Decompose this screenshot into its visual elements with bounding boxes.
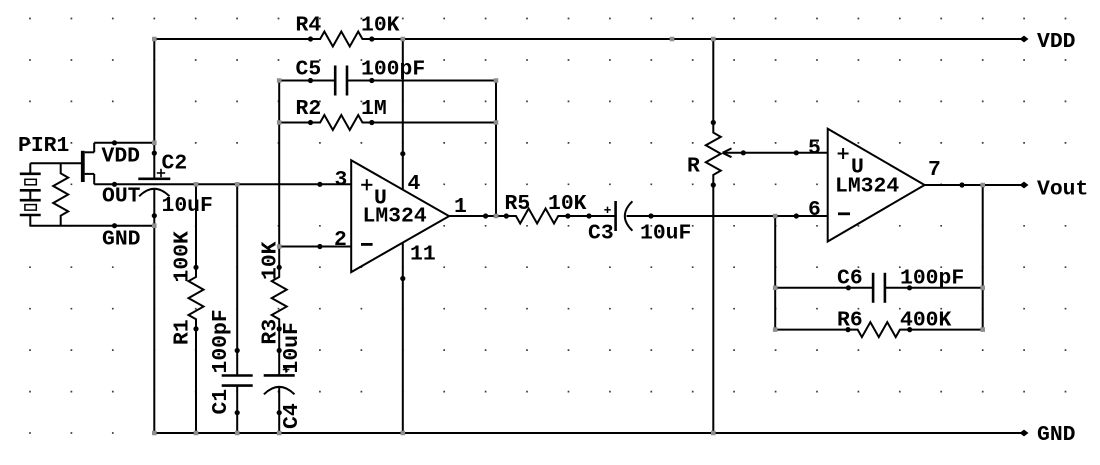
svg-text:VDD: VDD [1037, 30, 1076, 54]
svg-text:R2: R2 [296, 97, 322, 121]
svg-text:Vout: Vout [1037, 178, 1088, 202]
svg-text:100K: 100K [171, 231, 195, 283]
svg-text:R3: R3 [259, 319, 283, 345]
svg-text:6: 6 [808, 198, 821, 222]
svg-text:OUT: OUT [102, 185, 141, 209]
svg-text:4: 4 [408, 172, 421, 196]
svg-text:1: 1 [454, 195, 467, 219]
svg-text:10uF: 10uF [162, 194, 213, 218]
svg-text:C1: C1 [209, 389, 233, 415]
svg-text:1M: 1M [361, 97, 387, 121]
svg-text:C3: C3 [588, 222, 614, 246]
svg-text:10K: 10K [361, 14, 400, 38]
svg-text:100pF: 100pF [900, 267, 964, 291]
svg-text:400K: 400K [900, 309, 952, 333]
svg-text:R5: R5 [505, 192, 531, 216]
svg-text:LM324: LM324 [363, 205, 427, 229]
svg-text:GND: GND [1037, 423, 1076, 447]
svg-text:C5: C5 [296, 58, 322, 82]
svg-text:R1: R1 [171, 319, 195, 345]
svg-text:10K: 10K [259, 241, 283, 280]
svg-text:100pF: 100pF [361, 58, 425, 82]
svg-text:10uF: 10uF [640, 222, 691, 246]
svg-text:R6: R6 [837, 309, 863, 333]
svg-text:C6: C6 [837, 267, 863, 291]
svg-text:10uF: 10uF [280, 322, 304, 373]
svg-text:7: 7 [928, 158, 941, 182]
svg-text:10K: 10K [548, 192, 587, 216]
svg-text:100pF: 100pF [209, 309, 233, 373]
svg-text:5: 5 [808, 137, 821, 161]
svg-text:C2: C2 [162, 152, 188, 176]
svg-text:R: R [687, 155, 700, 179]
svg-text:2: 2 [334, 228, 347, 252]
svg-text:VDD: VDD [102, 145, 141, 169]
svg-text:PIR1: PIR1 [18, 134, 69, 158]
svg-text:LM324: LM324 [835, 175, 899, 199]
svg-text:11: 11 [410, 243, 436, 267]
svg-text:R4: R4 [296, 14, 322, 38]
svg-text:3: 3 [335, 168, 348, 192]
svg-text:GND: GND [102, 228, 141, 252]
svg-text:C4: C4 [280, 403, 304, 429]
